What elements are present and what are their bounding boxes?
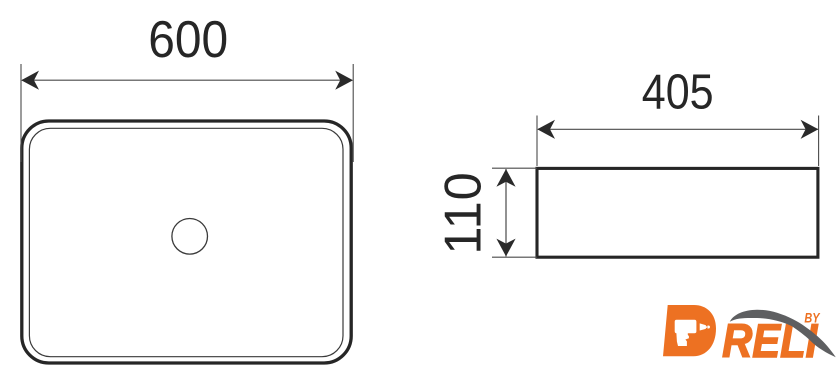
arrow up (110) — [496, 169, 515, 187]
arrow left (405) — [537, 120, 555, 139]
logo swoosh — [730, 310, 836, 358]
dimension line 405 — [538, 128, 818, 130]
extension line left (600) — [20, 64, 22, 162]
extension line right (600) — [352, 64, 354, 162]
extension line bottom (110) — [492, 256, 537, 258]
side view rectangle — [537, 168, 818, 257]
svg-text:405: 405 — [642, 64, 714, 119]
extension line left (405) — [536, 116, 538, 167]
svg-text:BY: BY — [804, 310, 821, 326]
extension line top (110) — [492, 167, 537, 169]
arrow right (600) — [335, 71, 353, 90]
top view: outer basin outline — [22, 121, 351, 363]
extension line right (405) — [818, 116, 820, 167]
dimension line 110 — [505, 169, 507, 256]
arrow right (405) — [801, 120, 819, 139]
arrow left (600) — [21, 71, 39, 90]
svg-text:110: 110 — [434, 171, 492, 254]
dimension line 600 — [22, 79, 352, 81]
drain circle — [172, 219, 208, 255]
top view: inner basin outline — [29, 128, 343, 356]
svg-text:600: 600 — [148, 10, 228, 68]
logo letter D with drill cutout — [663, 305, 716, 356]
arrow down (110) — [496, 239, 515, 257]
